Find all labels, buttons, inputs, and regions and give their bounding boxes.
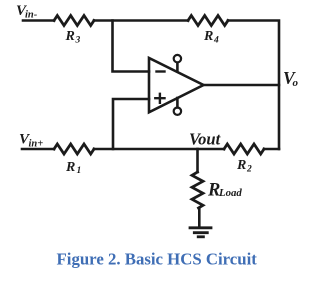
svg-text:Vout: Vout: [189, 130, 221, 149]
svg-text:o: o: [293, 77, 299, 89]
svg-text:1: 1: [77, 166, 82, 176]
svg-text:in+: in+: [29, 139, 44, 150]
svg-text:Load: Load: [218, 187, 242, 199]
svg-text:R: R: [236, 158, 246, 173]
svg-text:3: 3: [75, 35, 81, 45]
svg-text:4: 4: [213, 36, 219, 46]
svg-text:R: R: [203, 29, 213, 44]
svg-text:Figure 2. Basic HCS Circuit: Figure 2. Basic HCS Circuit: [57, 250, 258, 269]
svg-text:R: R: [65, 160, 75, 175]
svg-text:in-: in-: [25, 10, 38, 21]
svg-text:2: 2: [246, 164, 252, 174]
svg-text:R: R: [65, 29, 75, 44]
